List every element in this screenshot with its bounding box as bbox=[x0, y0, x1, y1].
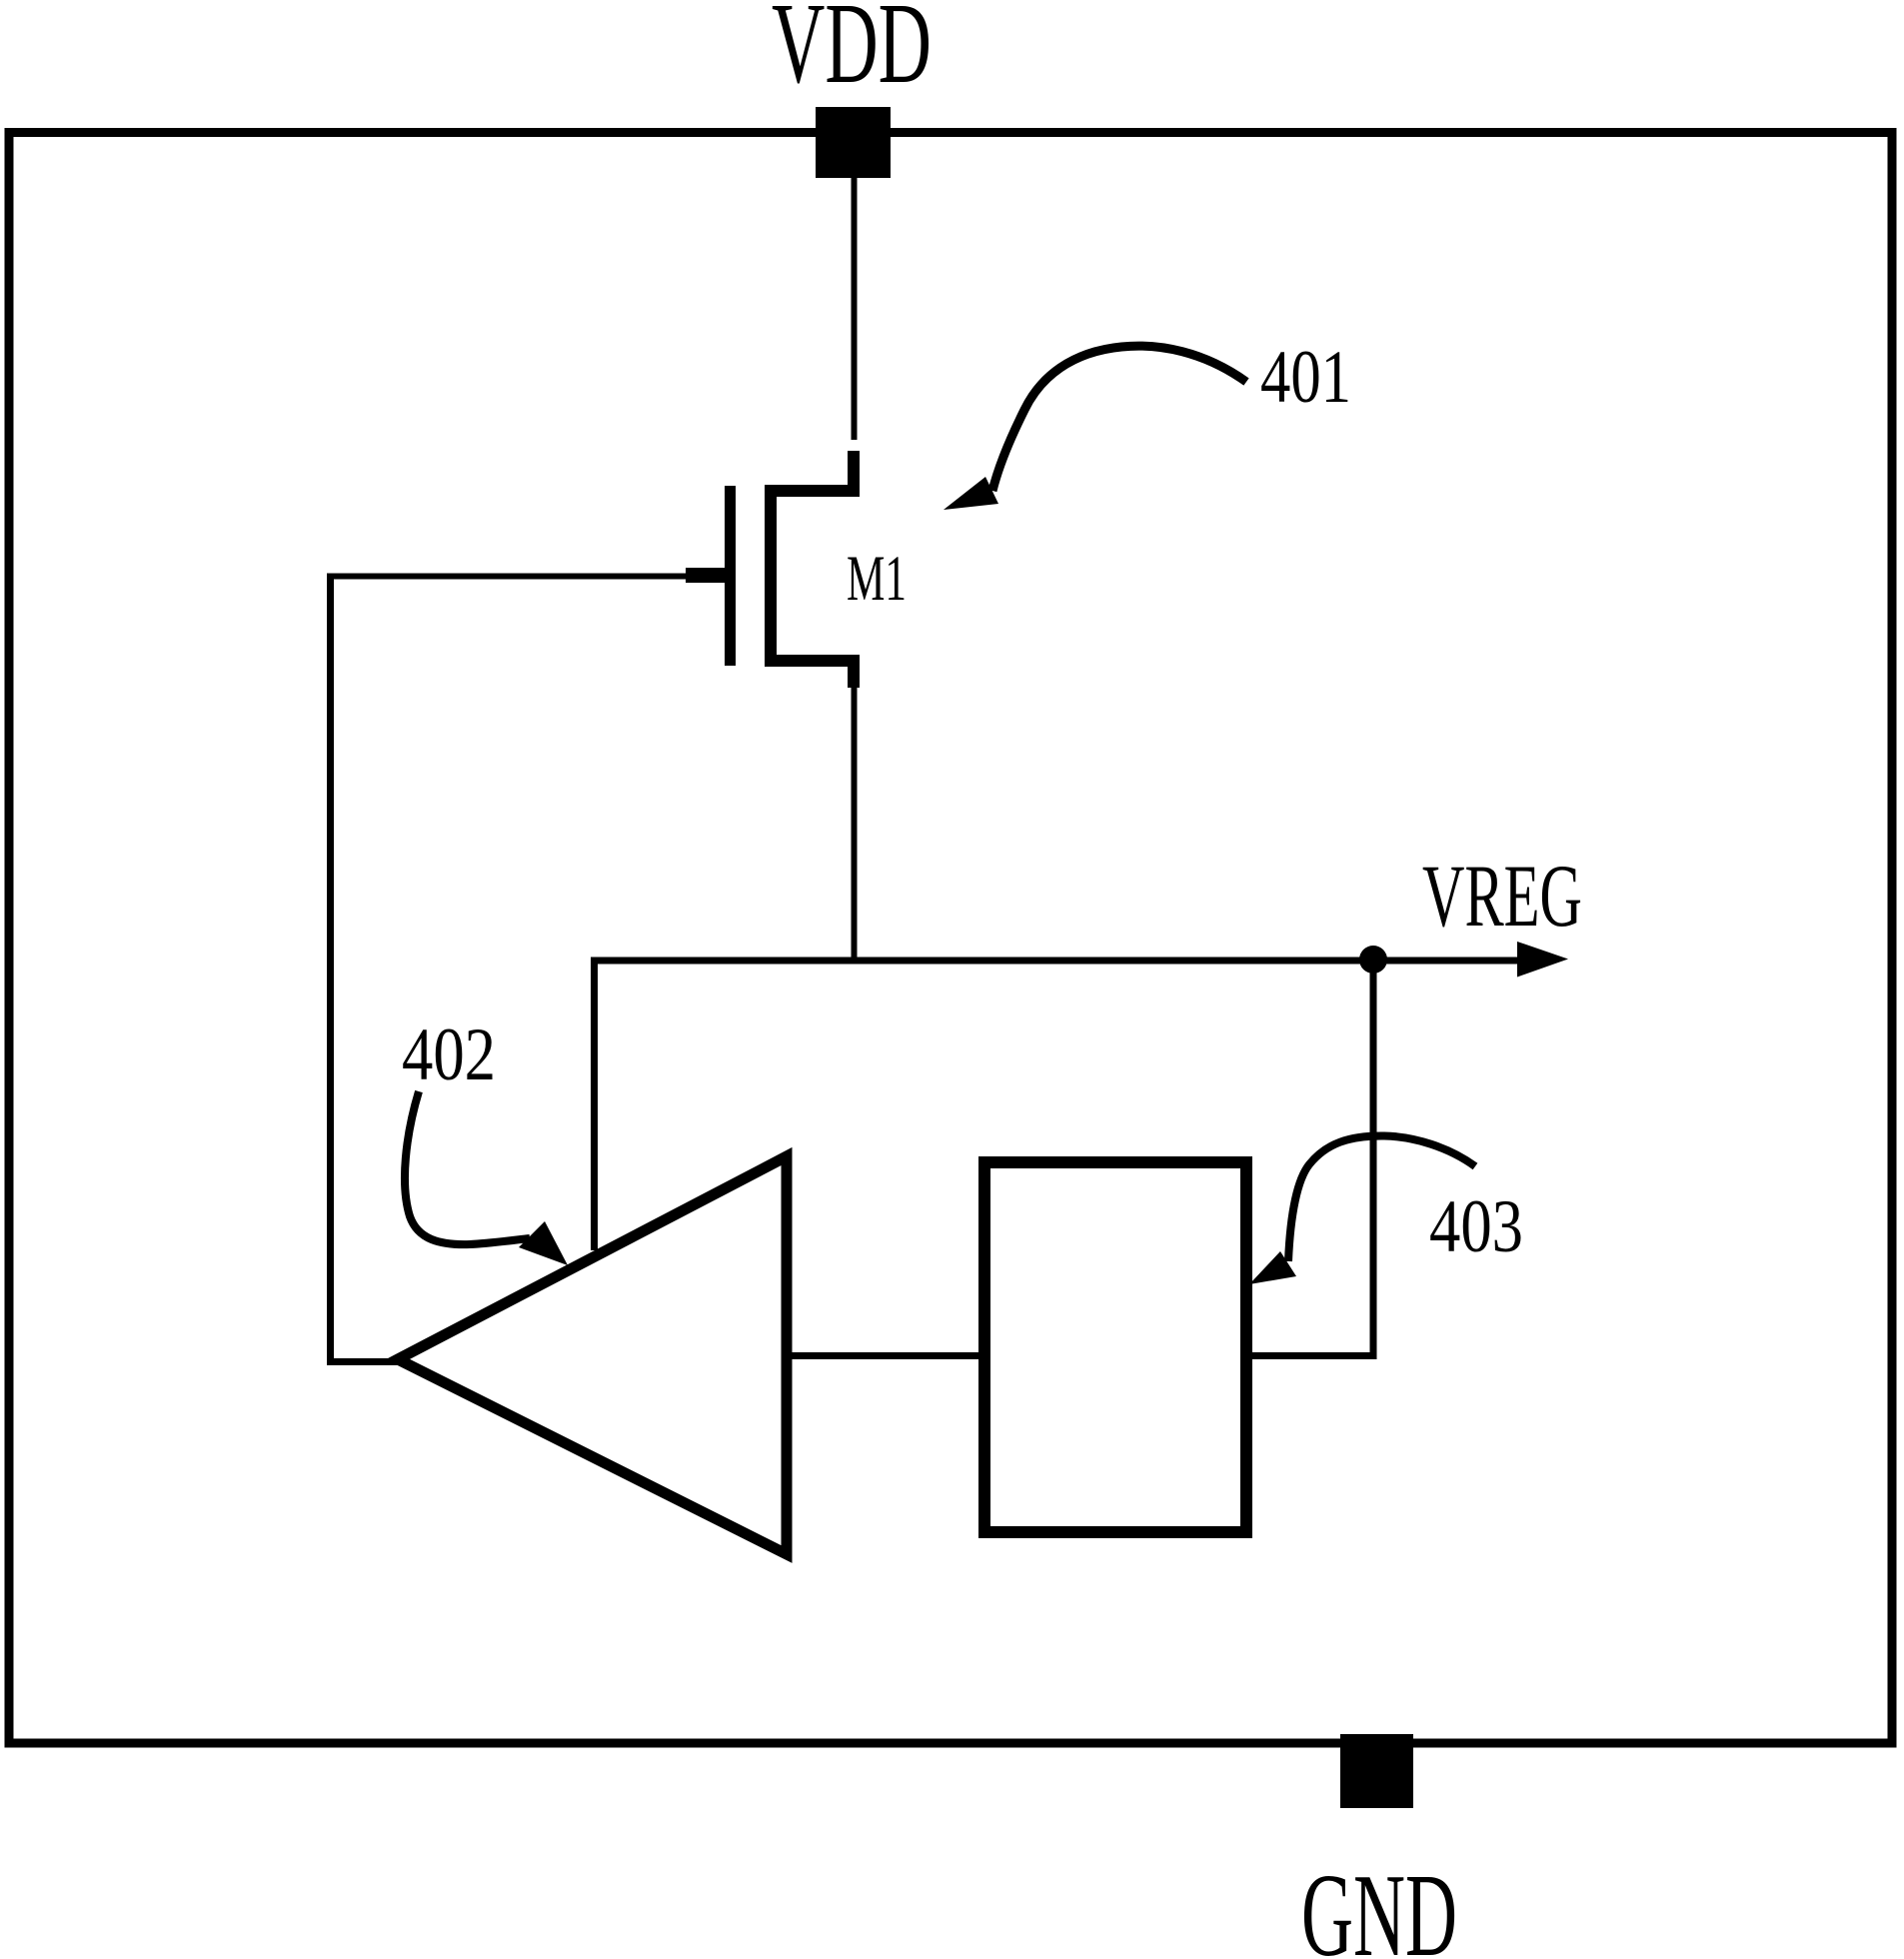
transistor M1 gate bar bbox=[725, 486, 736, 666]
wire gate feedback vertical bbox=[327, 574, 334, 1362]
VREG output arrowhead bbox=[1517, 942, 1568, 978]
wire feedback to amplifier output bbox=[327, 1358, 400, 1365]
wire VREG node to block 403 bbox=[1250, 967, 1373, 1356]
transistor M1 channel bar bbox=[765, 485, 777, 667]
leader arrow 401 bbox=[992, 346, 1246, 491]
leader arrow 402 bbox=[405, 1091, 530, 1244]
svg-text:402: 402 bbox=[402, 1013, 496, 1096]
transistor M1 drain arm bbox=[765, 661, 854, 688]
svg-text:401: 401 bbox=[1260, 336, 1351, 419]
svg-text:M1: M1 bbox=[847, 543, 907, 615]
leader arrow 403 bbox=[1288, 1135, 1475, 1261]
transistor M1 source arm bbox=[765, 451, 854, 491]
svg-text:GND: GND bbox=[1301, 1849, 1457, 1959]
wire VREG to amplifier input bbox=[591, 961, 598, 1250]
svg-text:VREG: VREG bbox=[1422, 848, 1582, 946]
svg-text:403: 403 bbox=[1429, 1185, 1523, 1268]
wire block 403 to amplifier input bbox=[790, 1352, 980, 1359]
wire M1 drain to VREG node bbox=[852, 688, 858, 961]
GND pad bbox=[1340, 1734, 1413, 1808]
node VREG junction bbox=[1359, 946, 1387, 974]
wire VREG net bbox=[591, 958, 1518, 965]
VDD pad bbox=[816, 107, 891, 178]
wire VDD to M1 source bbox=[852, 178, 858, 440]
op-amp 402 amplifier triangle bbox=[398, 1156, 787, 1554]
transistor M1 gate lead bbox=[686, 568, 736, 583]
wire gate of M1 bbox=[331, 574, 687, 580]
svg-text:VDD: VDD bbox=[772, 0, 932, 107]
block 403 reference circuit bbox=[984, 1162, 1246, 1532]
